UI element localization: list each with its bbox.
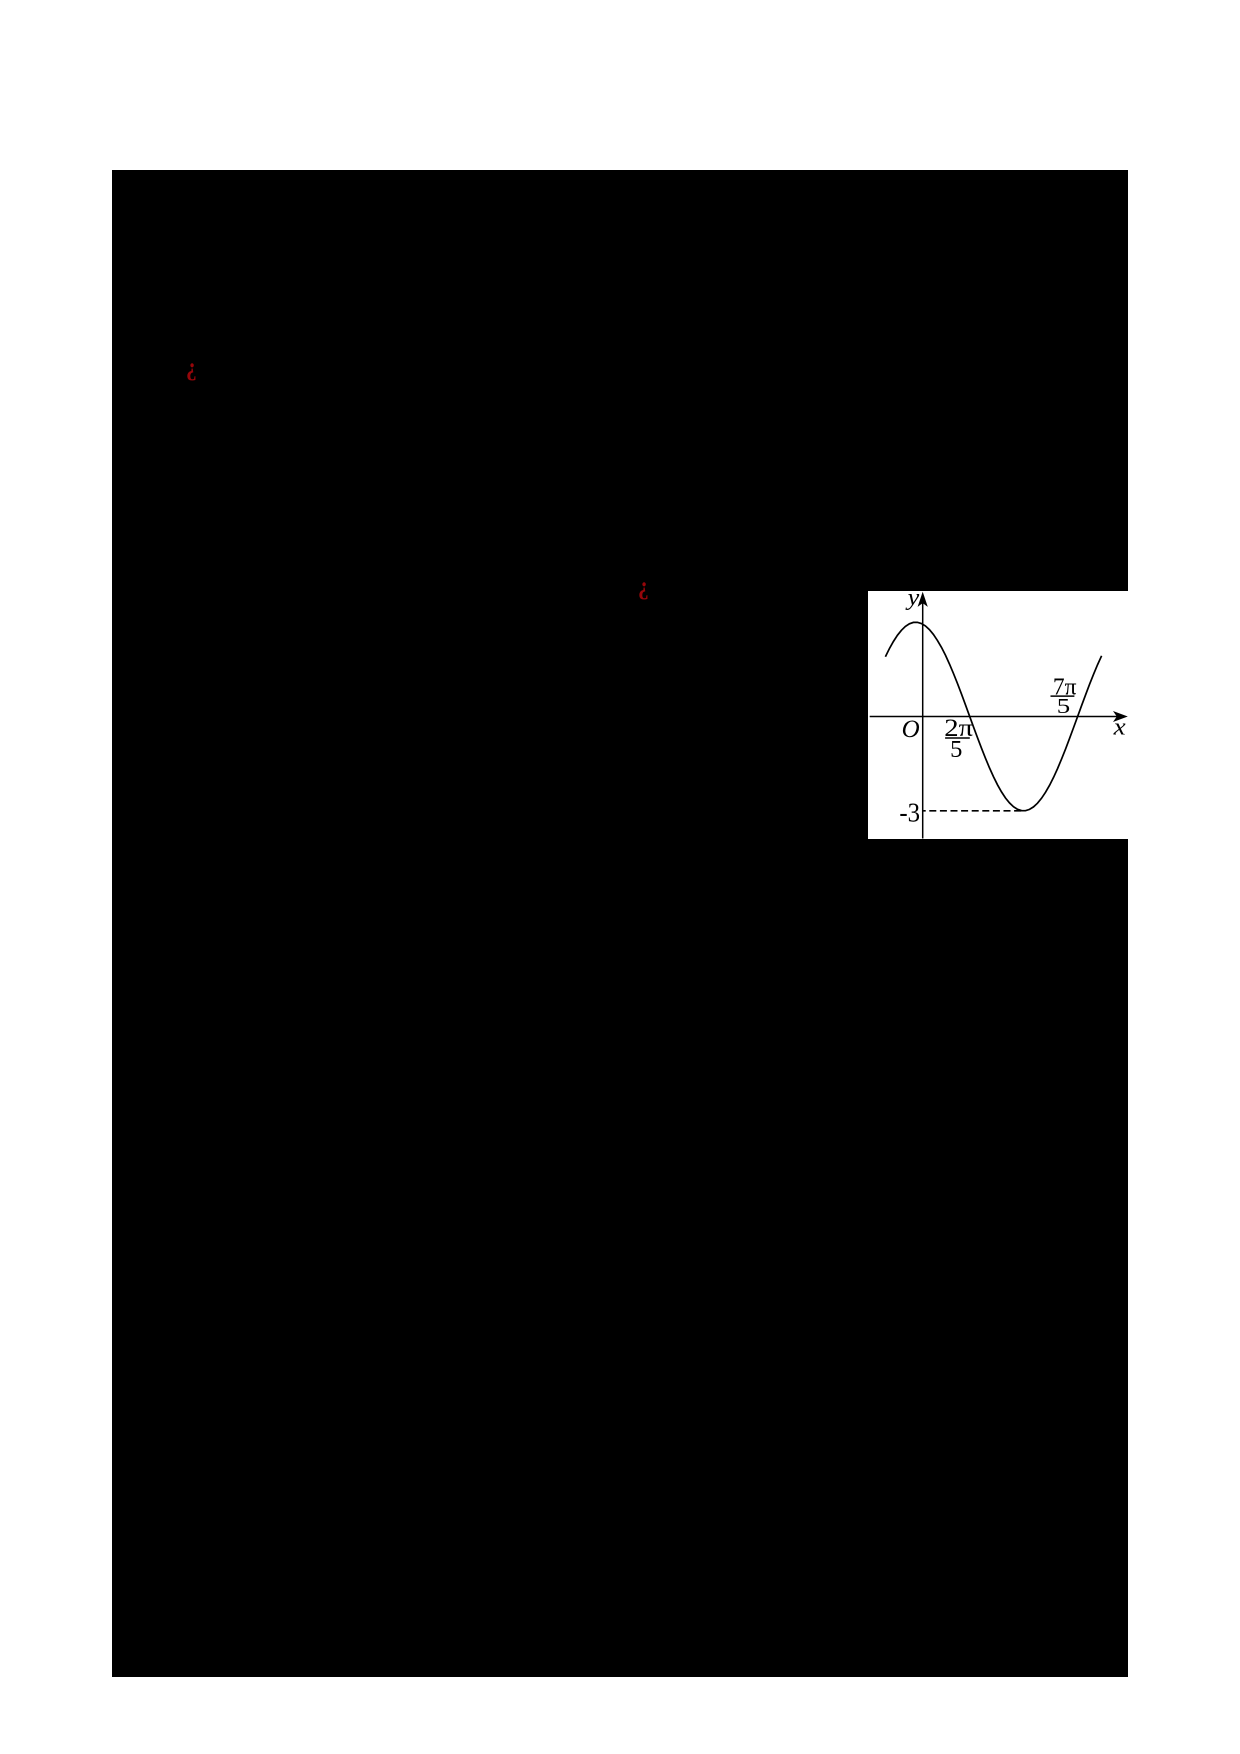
dashed -3 level line <box>923 809 1021 811</box>
y axis <box>921 594 923 838</box>
red inverted question mark 2 <box>638 573 649 598</box>
svg-text:5: 5 <box>950 736 962 763</box>
svg-text:x: x <box>1112 712 1126 739</box>
x axis arrowhead <box>1113 711 1128 722</box>
svg-text:-3: -3 <box>899 797 920 827</box>
red inverted question mark 1 <box>186 354 197 379</box>
svg-text:O: O <box>901 715 919 742</box>
svg-text:y: y <box>904 591 920 611</box>
white graph figure <box>868 591 1128 840</box>
svg-text:5: 5 <box>1056 694 1069 718</box>
y axis arrowhead <box>917 591 927 606</box>
x axis <box>869 715 1123 717</box>
big black content block <box>112 170 1128 1677</box>
sine curve <box>885 622 1101 810</box>
